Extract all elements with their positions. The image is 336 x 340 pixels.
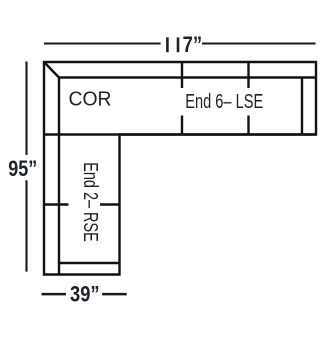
seat divider 1 upper segment bbox=[181, 62, 183, 88]
dimension line 117 right segment bbox=[202, 42, 316, 44]
dimension line 39 left dash bbox=[42, 293, 67, 296]
svg-text:End 6– LSE: End 6– LSE bbox=[185, 91, 263, 113]
backrest line horizontal (top band) bbox=[59, 76, 316, 78]
dimension line 117 left segment bbox=[44, 42, 161, 44]
backrest line vertical (left band) bbox=[58, 78, 60, 275]
svg-text:COR: COR bbox=[69, 89, 112, 111]
dimension line 39 right dash bbox=[102, 293, 127, 296]
vertical arm divider right segment bbox=[100, 203, 120, 205]
svg-text:95”: 95” bbox=[8, 156, 37, 181]
svg-text:7”: 7” bbox=[183, 32, 203, 57]
seat divider 2 upper segment bbox=[247, 62, 249, 88]
seat divider 2 lower segment bbox=[247, 116, 249, 135]
svg-text:End 2– RSE: End 2– RSE bbox=[79, 162, 101, 242]
dimension text 117 bbox=[166, 32, 202, 57]
dimension line 95 bottom segment bbox=[25, 180, 27, 271]
sofa outer outline (L-shape) bbox=[44, 62, 316, 275]
seat divider 1 lower segment bbox=[181, 116, 183, 135]
armrest line bottom end (RSE) bbox=[59, 262, 120, 264]
armrest line right end (LSE) bbox=[301, 78, 303, 135]
corner diagonal bbox=[44, 62, 59, 78]
dimension line 95 top segment bbox=[25, 62, 27, 155]
svg-text:39”: 39” bbox=[70, 282, 100, 307]
vertical arm divider left segment bbox=[44, 203, 69, 205]
corner bottom divider and arm bottom edge bbox=[44, 133, 316, 135]
